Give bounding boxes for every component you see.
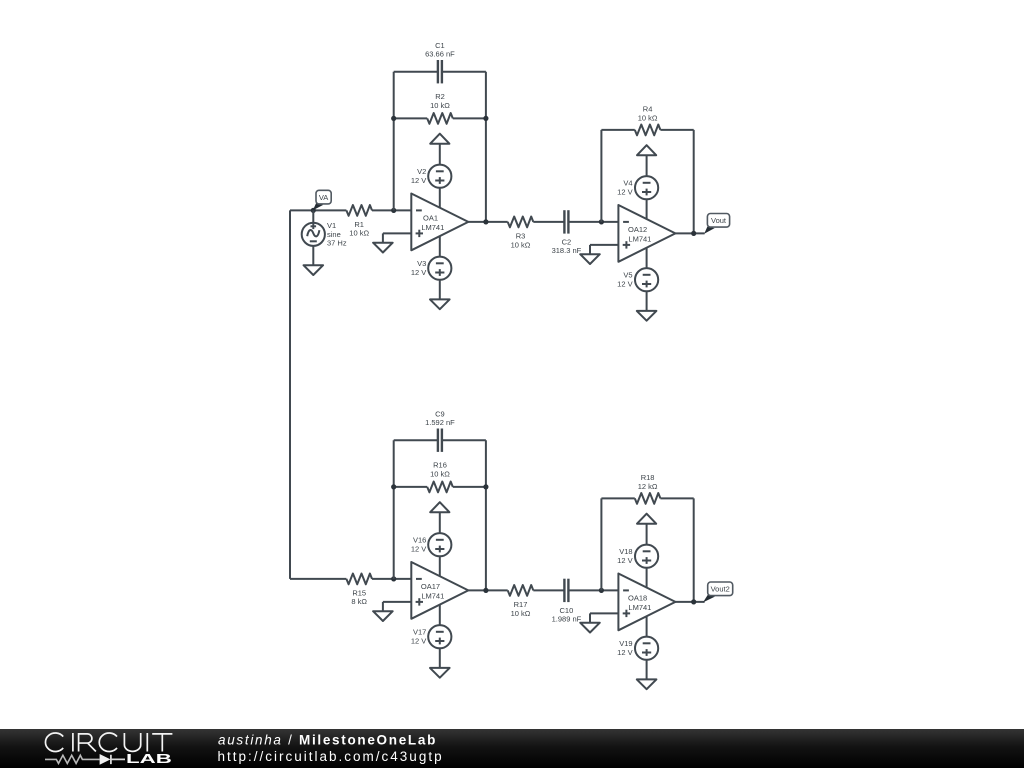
- resistor R17 10 k: [508, 585, 534, 618]
- flipped ground above V16 12 V: [430, 502, 449, 512]
- wire feedback left vertical (OA12): [600, 130, 602, 222]
- junction R16 right: [483, 484, 488, 489]
- wire OA12 output to Vout: [675, 232, 704, 234]
- wire to R2: [394, 117, 428, 119]
- node flag Vout: [704, 214, 729, 234]
- svg-text:R2: R2: [435, 92, 445, 101]
- flipped ground above V18 12 V: [637, 514, 656, 524]
- wire from R18: [660, 497, 693, 499]
- svg-text:VA: VA: [319, 193, 328, 202]
- svg-text:12 V: 12 V: [617, 188, 632, 197]
- wire from C1 right plate: [442, 71, 486, 73]
- ground below V17 12 V: [430, 668, 450, 678]
- svg-text:V2: V2: [417, 167, 426, 176]
- wire feedback right vertical (OA18): [693, 498, 695, 602]
- wire + input stub drop (OA12): [589, 245, 591, 254]
- svg-text:10 kΩ: 10 kΩ: [430, 101, 450, 110]
- resistor R4 10 k: [635, 104, 661, 135]
- junction OA17 output/feedback: [483, 588, 488, 593]
- svg-text:OA12: OA12: [628, 225, 647, 234]
- wire op-amp V- pin to V17 12 V: [439, 596, 441, 625]
- svg-text:LAB: LAB: [126, 752, 172, 766]
- op-amp U OA17 LM741: [411, 562, 468, 619]
- svg-text:12 V: 12 V: [617, 280, 632, 289]
- svg-text:R15: R15: [352, 588, 366, 597]
- junction at OA1 inverting input: [391, 208, 396, 213]
- wire V18 12 V to op-amp V+ pin: [646, 568, 648, 596]
- svg-text:Vout: Vout: [711, 216, 727, 225]
- wire op-amp V- pin to V19 12 V: [646, 608, 648, 637]
- logo resistor-diode glyph: [45, 755, 125, 764]
- junction at OA18 inverting input: [599, 588, 604, 593]
- wire OA17 output to R17: [468, 589, 507, 591]
- svg-text:R16: R16: [433, 461, 447, 470]
- wire V4 12 V to op-amp V+ pin: [646, 199, 648, 227]
- ground at + input (OA18): [580, 623, 600, 633]
- voltage source V2 12 V: [411, 165, 452, 188]
- resistor R1 10 k: [346, 205, 372, 238]
- svg-text:318.3 nF: 318.3 nF: [552, 246, 582, 255]
- sine source V1: [302, 210, 347, 247]
- wire V2 12 V to flipped ground: [439, 144, 441, 165]
- flipped ground above V2 12 V: [430, 134, 449, 144]
- wire R15 to OA17 inverting input: [372, 578, 411, 580]
- voltage source V3 12 V: [411, 257, 452, 280]
- resistor R2 10 k: [427, 92, 453, 124]
- resistor R18 12 k: [635, 473, 661, 504]
- svg-text:OA17: OA17: [421, 582, 440, 591]
- node flag Vout2: [703, 582, 733, 602]
- op-amp U OA1 LM741: [411, 194, 468, 251]
- wire op-amp + input stub (OA1): [383, 232, 411, 234]
- svg-text:austinha / MilestoneOneLab: austinha / MilestoneOneLab: [218, 732, 437, 747]
- svg-text:R1: R1: [354, 220, 364, 229]
- voltage source V18 12 V: [617, 545, 658, 568]
- svg-text:V5: V5: [623, 271, 632, 280]
- junction OA18 output/feedback: [691, 599, 696, 604]
- flipped ground above V4 12 V: [637, 145, 656, 155]
- wire VA node to R1: [313, 209, 346, 211]
- svg-text:LM741: LM741: [421, 591, 444, 600]
- svg-text:http://circuitlab.com/c43ugtp: http://circuitlab.com/c43ugtp: [218, 749, 444, 764]
- ground below V3 12 V: [430, 299, 450, 309]
- wire to R18: [601, 497, 634, 499]
- svg-text:1.592 nF: 1.592 nF: [425, 418, 455, 427]
- wire OA18 output to Vout2: [675, 601, 704, 603]
- wire op-amp V- pin to V5 12 V: [646, 239, 648, 268]
- svg-text:37 Hz: 37 Hz: [327, 239, 347, 248]
- wire V2 12 V to op-amp V+ pin: [439, 188, 441, 216]
- wire C10 to OA18 inverting input: [568, 589, 618, 591]
- wire V4 12 V to flipped ground: [646, 155, 648, 176]
- svg-text:V17: V17: [413, 628, 426, 637]
- wire V19 12 V to ground: [646, 660, 648, 680]
- footer banner: [0, 729, 1024, 768]
- svg-text:12 V: 12 V: [411, 268, 426, 277]
- svg-text:sine: sine: [327, 230, 341, 239]
- capacitor C10 1.989 nF: [552, 579, 582, 624]
- svg-text:10 kΩ: 10 kΩ: [638, 113, 658, 122]
- svg-text:OA18: OA18: [628, 593, 647, 602]
- op-amp U OA18 LM741: [618, 574, 675, 631]
- node flag VA: [313, 190, 331, 210]
- svg-text:12 V: 12 V: [411, 637, 426, 646]
- wire feedback right vertical (OA12): [693, 130, 695, 234]
- ground at + input (OA1): [373, 243, 393, 253]
- capacitor C9 1.592 nF: [425, 409, 455, 452]
- wire V18 12 V to flipped ground: [646, 524, 648, 545]
- svg-text:V19: V19: [619, 639, 632, 648]
- svg-text:8 kΩ: 8 kΩ: [351, 597, 367, 606]
- ground at + input (OA12): [580, 254, 600, 264]
- junction R2 right: [483, 116, 488, 121]
- svg-text:LM741: LM741: [628, 603, 651, 612]
- svg-text:Vout2: Vout2: [711, 585, 730, 594]
- wire V1 to ground: [312, 246, 314, 265]
- capacitor C2 318.3 nF: [552, 210, 582, 255]
- svg-text:R17: R17: [514, 600, 528, 609]
- svg-text:C10: C10: [560, 606, 574, 615]
- svg-text:12 V: 12 V: [617, 556, 632, 565]
- resistor R16 10 k: [427, 461, 453, 493]
- svg-text:1.989 nF: 1.989 nF: [552, 615, 582, 624]
- wire R1 to OA1 inverting input: [372, 209, 411, 211]
- svg-text:R18: R18: [641, 473, 655, 482]
- ground below V5 12 V: [637, 311, 657, 321]
- svg-text:LM741: LM741: [421, 223, 444, 232]
- wire rail to R15: [290, 578, 346, 580]
- svg-text:V1: V1: [327, 221, 336, 230]
- svg-text:10 kΩ: 10 kΩ: [349, 229, 369, 238]
- junction at OA17 inverting input: [391, 576, 396, 581]
- wire V16 12 V to op-amp V+ pin: [439, 556, 441, 584]
- CircuitLab logo wordmark CIRCUIT (drawn thin letterforms): [45, 733, 172, 752]
- ground at + input (OA17): [373, 611, 393, 621]
- resistor R3 10 k: [508, 217, 534, 250]
- junction at OA12 inverting input: [599, 219, 604, 224]
- junction OA12 output/feedback: [691, 231, 696, 236]
- svg-text:LM741: LM741: [628, 234, 651, 243]
- op-amp U OA12 LM741: [618, 205, 675, 262]
- wire from C9 right plate: [442, 439, 486, 441]
- svg-text:R4: R4: [643, 104, 653, 113]
- wire to R4: [601, 129, 634, 131]
- wire V3 12 V to ground: [439, 280, 441, 300]
- svg-text:12 V: 12 V: [411, 545, 426, 554]
- wire feedback left vertical (OA18): [600, 498, 602, 590]
- wire V17 12 V to ground: [439, 648, 441, 668]
- wire to C9 left plate: [394, 439, 438, 441]
- ground below V19 12 V: [637, 679, 657, 689]
- wire left rail vertical VA to R15: [289, 210, 291, 579]
- wire feedback left vertical (OA17): [393, 440, 395, 579]
- svg-text:V16: V16: [413, 536, 426, 545]
- svg-text:R3: R3: [516, 231, 526, 240]
- junction R16 left: [391, 484, 396, 489]
- wire R3 to C2: [533, 221, 564, 223]
- wire op-amp + input stub (OA17): [383, 601, 411, 603]
- svg-text:12 V: 12 V: [617, 648, 632, 657]
- wire C2 to OA12 inverting input: [568, 221, 618, 223]
- wire from R2: [453, 117, 486, 119]
- svg-text:OA1: OA1: [423, 213, 438, 222]
- wire from R16: [453, 486, 486, 488]
- wire feedback right vertical (OA1): [485, 72, 487, 222]
- voltage source V19 12 V: [617, 637, 658, 660]
- capacitor C1 63.66 nF: [425, 41, 455, 84]
- svg-text:10 kΩ: 10 kΩ: [511, 241, 531, 250]
- wire V5 12 V to ground: [646, 291, 648, 311]
- svg-text:12 V: 12 V: [411, 176, 426, 185]
- wire feedback left vertical (OA1): [393, 72, 395, 211]
- svg-text:63.66 nF: 63.66 nF: [425, 50, 455, 59]
- junction R2 left: [391, 116, 396, 121]
- wire to R16: [394, 486, 428, 488]
- svg-text:10 kΩ: 10 kΩ: [430, 470, 450, 479]
- svg-text:C2: C2: [562, 237, 572, 246]
- voltage source V17 12 V: [411, 625, 452, 648]
- junction OA1 output/feedback: [483, 219, 488, 224]
- wire from R4: [660, 129, 693, 131]
- wire + input stub drop (OA17): [382, 602, 384, 611]
- wire op-amp + input stub (OA18): [590, 612, 618, 614]
- wire to C1 left plate: [394, 71, 438, 73]
- ground below V1: [304, 265, 324, 275]
- wire V16 12 V to flipped ground: [439, 512, 441, 533]
- svg-text:V3: V3: [417, 259, 426, 268]
- voltage source V4 12 V: [617, 176, 658, 199]
- svg-text:12 kΩ: 12 kΩ: [638, 482, 658, 491]
- junction at node VA: [311, 208, 316, 213]
- svg-text:V4: V4: [623, 179, 632, 188]
- wire OA1 output to R3: [468, 221, 507, 223]
- wire input net VA (left segment): [290, 209, 313, 211]
- wire op-amp V- pin to V3 12 V: [439, 228, 441, 257]
- wire R17 to C10: [533, 589, 564, 591]
- voltage source V16 12 V: [411, 533, 452, 556]
- wire + input stub drop (OA1): [382, 233, 384, 242]
- voltage source V5 12 V: [617, 268, 658, 291]
- wire feedback right vertical (OA17): [485, 440, 487, 590]
- resistor R15 8 k: [346, 574, 372, 607]
- wire op-amp + input stub (OA12): [590, 244, 618, 246]
- wire + input stub drop (OA18): [589, 613, 591, 622]
- svg-text:10 kΩ: 10 kΩ: [511, 609, 531, 618]
- svg-text:V18: V18: [619, 547, 632, 556]
